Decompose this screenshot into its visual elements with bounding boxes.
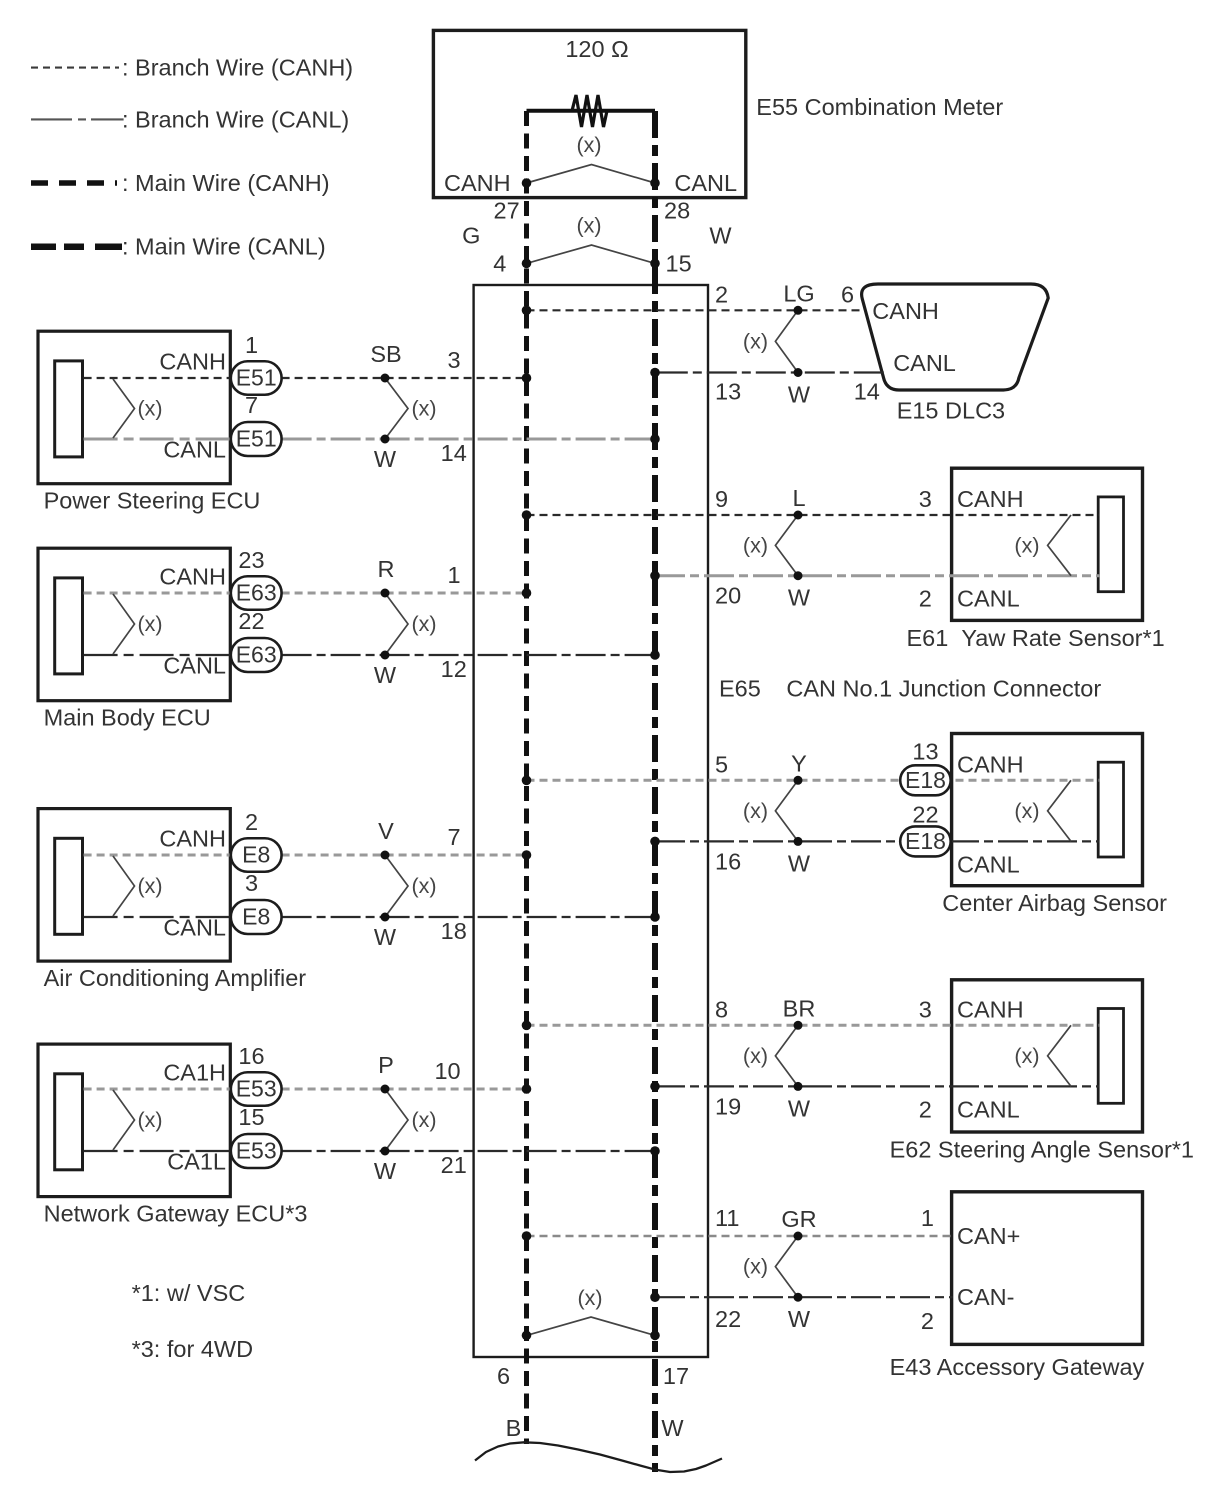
main wire CANH vertical: [524, 111, 529, 1444]
svg-text:CANL: CANL: [957, 586, 1020, 612]
main wire CANL vertical: [652, 111, 658, 1472]
svg-text:CANL: CANL: [957, 1096, 1020, 1122]
node W on Center Airbag Sensor CANL branch: [794, 837, 803, 846]
E61&#160;&#160;Yaw Rate Sensor*1 branch twisted-pair chevron: [775, 515, 798, 576]
svg-text:E53: E53: [236, 1138, 277, 1164]
svg-text:13: 13: [715, 379, 741, 405]
svg-text:W: W: [788, 585, 811, 611]
junction node CANL DLC3: [650, 368, 660, 378]
node BR on CANH branch: [794, 1021, 803, 1030]
Main Body ECU internal twisted-pair chevron: [113, 594, 135, 654]
Center Airbag Sensor connector bar: [1098, 762, 1123, 857]
svg-text:22: 22: [912, 801, 938, 827]
Air Conditioning Amplifier internal CANH wire: [84, 854, 231, 857]
svg-text:E8: E8: [242, 842, 270, 868]
junction node CANH Power Steering ECU: [522, 373, 532, 383]
svg-text:2: 2: [715, 281, 728, 307]
Air Conditioning Amplifier connector bar: [55, 838, 83, 934]
junction node CANH E61&#160;&#160;Yaw Rate Sensor*1: [522, 510, 532, 520]
Network Gateway ECU*3 internal twisted-pair chevron: [113, 1090, 135, 1150]
svg-text:E55 Combination Meter: E55 Combination Meter: [756, 94, 1003, 120]
node Y on CANH branch: [794, 776, 803, 785]
svg-text:: Branch Wire (CANH): : Branch Wire (CANH): [122, 55, 353, 81]
svg-text:CANL: CANL: [163, 437, 226, 463]
svg-text:W: W: [374, 1158, 397, 1184]
svg-text:E63: E63: [236, 580, 277, 606]
svg-text:CANH: CANH: [159, 564, 226, 590]
branch wire CANL Power Steering ECU to junction: [282, 438, 655, 441]
E43 branch twisted-pair chevron: [775, 1236, 798, 1297]
Air Conditioning Amplifier internal CANL wire: [84, 916, 231, 918]
svg-text:23: 23: [238, 547, 264, 573]
svg-text:3: 3: [919, 996, 932, 1022]
legend main wire CANL sample: [31, 243, 122, 250]
ECU box Air Conditioning Amplifier: [38, 809, 230, 962]
svg-text:(x): (x): [1014, 1044, 1039, 1068]
svg-text:V: V: [378, 818, 394, 844]
svg-text:CANH: CANH: [957, 486, 1024, 512]
svg-text:22: 22: [715, 1306, 741, 1332]
Center Airbag Sensor internal twisted-pair chevron: [1048, 780, 1071, 841]
Power Steering ECU internal CANH wire: [84, 377, 231, 379]
E62 Steering Angle Sensor*1 connector bar: [1098, 1009, 1123, 1104]
branch wire CANL junction to DLC3: [655, 371, 884, 373]
Main Body ECU branch twisted-pair chevron: [385, 593, 408, 655]
svg-text:B: B: [506, 1415, 522, 1441]
svg-text:LG: LG: [783, 280, 814, 306]
svg-text:6: 6: [497, 1363, 510, 1389]
svg-text:W: W: [788, 1095, 811, 1121]
svg-text:(x): (x): [577, 1286, 602, 1310]
svg-text:W: W: [374, 446, 397, 472]
svg-text:16: 16: [238, 1043, 264, 1069]
svg-text:E18: E18: [905, 828, 946, 854]
svg-text:Air Conditioning Amplifier: Air Conditioning Amplifier: [44, 965, 307, 991]
svg-text:(x): (x): [743, 329, 768, 353]
node W on E43 CANL branch: [794, 1293, 803, 1302]
Main Body ECU connector bar: [55, 578, 83, 674]
meter harness twisted-pair chevron: [527, 245, 656, 263]
node W on CANL branch: [381, 435, 390, 444]
branch wire CANL Main Body ECU to junction: [282, 654, 655, 656]
svg-text:CAN+: CAN+: [957, 1223, 1020, 1249]
svg-text:CANH: CANH: [957, 751, 1024, 777]
node CANH in E55: [522, 178, 532, 188]
connector oval E51 pin 7: [231, 422, 282, 456]
svg-text:3: 3: [245, 870, 258, 896]
junction node CANL Main Body ECU: [650, 650, 660, 660]
junction node CANH Main Body ECU: [522, 588, 532, 598]
Main Body ECU internal CANH wire: [84, 592, 231, 595]
svg-text:E51: E51: [236, 365, 277, 391]
ECU box Power Steering ECU: [38, 331, 230, 484]
svg-text:18: 18: [441, 918, 467, 944]
svg-text:(x): (x): [743, 799, 768, 823]
svg-text:12: 12: [441, 656, 467, 682]
svg-text:E43 Accessory Gateway: E43 Accessory Gateway: [890, 1354, 1145, 1380]
svg-text:: Main Wire (CANH): : Main Wire (CANH): [122, 170, 330, 196]
svg-text:(x): (x): [743, 1044, 768, 1068]
svg-text:28: 28: [664, 198, 690, 224]
node W on CANL branch: [381, 1147, 390, 1156]
svg-text:3: 3: [919, 486, 932, 512]
svg-text:(x): (x): [743, 1255, 768, 1279]
junction node CANL Power Steering ECU: [650, 434, 660, 444]
svg-text:(x): (x): [1014, 799, 1039, 823]
junction connector box E65: [474, 285, 708, 1357]
Network Gateway ECU*3 internal CANH wire: [84, 1088, 231, 1091]
svg-text:E53: E53: [236, 1076, 277, 1102]
svg-text:(x): (x): [412, 612, 437, 636]
svg-text:11: 11: [715, 1205, 739, 1231]
junction node CANH E43: [522, 1231, 532, 1241]
svg-text:15: 15: [238, 1104, 264, 1130]
svg-text:15: 15: [666, 251, 692, 277]
connector oval E51 pin 1: [231, 361, 282, 395]
svg-text:7: 7: [448, 824, 461, 850]
accessory gateway box E43: [952, 1192, 1143, 1345]
node 4 on CANH: [522, 259, 532, 269]
svg-text:W: W: [709, 223, 732, 249]
branch wire CANH Network Gateway ECU*3 to junction: [282, 1088, 527, 1091]
svg-text:(x): (x): [412, 874, 437, 898]
branch wire CANL junction to E61&#160;&#160;Yaw Rate Sensor*1: [655, 574, 1099, 577]
node W on E62 Steering Angle Sensor*1 CANL branch: [794, 1082, 803, 1091]
node V on CANH branch: [381, 851, 390, 860]
svg-text:(x): (x): [576, 214, 601, 238]
svg-text:7: 7: [245, 392, 258, 418]
node L on CANH branch: [794, 511, 803, 520]
junction node CANH DLC3: [522, 306, 532, 316]
svg-text:20: 20: [715, 583, 741, 609]
connector oval E53 pin 16: [231, 1072, 282, 1106]
svg-text:1: 1: [448, 562, 461, 588]
svg-text:13: 13: [912, 738, 938, 764]
svg-text:3: 3: [448, 347, 461, 373]
svg-text:*1: w/ VSC: *1: w/ VSC: [132, 1280, 246, 1306]
svg-text:CANH: CANH: [159, 826, 226, 852]
svg-text:22: 22: [238, 608, 264, 634]
svg-text:E61 Yaw Rate Sensor*1: E61 Yaw Rate Sensor*1: [907, 625, 1165, 651]
svg-text:: Branch Wire (CANL): : Branch Wire (CANL): [122, 106, 349, 132]
junction node CANH E62 Steering Angle Sensor*1: [522, 1021, 532, 1031]
svg-text:BR: BR: [783, 995, 816, 1021]
sensor box E62 Steering Angle Sensor*1: [952, 980, 1143, 1132]
Power Steering ECU internal twisted-pair chevron: [113, 379, 135, 438]
branch wire CANL junction to E62 Steering Angle Sensor*1: [655, 1085, 1099, 1087]
svg-text:14: 14: [441, 440, 467, 466]
node LG on CANH branch: [794, 306, 803, 315]
junction node CANL Center Airbag Sensor: [650, 837, 660, 847]
node R on CANH branch: [381, 589, 390, 598]
legend main wire CANH sample: [31, 180, 117, 186]
branch wire CANH junction to DLC3: [527, 309, 865, 311]
resistor 120ohm lead line: [527, 109, 656, 113]
harness continuation wave: [475, 1442, 722, 1472]
connector oval E18 pin 13: [900, 765, 951, 795]
svg-text:R: R: [378, 556, 395, 582]
svg-text:5: 5: [715, 751, 728, 777]
branch wire CANH Main Body ECU to junction: [282, 592, 527, 595]
node 15 on CANL: [650, 259, 660, 269]
svg-text:(x): (x): [138, 1108, 163, 1132]
Air Conditioning Amplifier branch twisted-pair chevron: [385, 855, 408, 917]
sensor box E61&#160;&#160;Yaw Rate Sensor*1: [952, 468, 1143, 620]
Network Gateway ECU*3 connector bar: [55, 1074, 83, 1170]
E55 twisted-pair chevron: [527, 165, 656, 184]
svg-text:CANH: CANH: [957, 996, 1024, 1022]
node W on CANL main: [650, 1331, 660, 1341]
svg-text:E15 DLC3: E15 DLC3: [897, 398, 1005, 424]
svg-text:: Main Wire (CANL): : Main Wire (CANL): [122, 234, 326, 260]
resistor 120ohm zigzag: [572, 95, 607, 127]
connector oval E18 pin 22: [900, 826, 951, 856]
connector oval E63 pin 23: [231, 576, 282, 610]
junction node CANL E43: [650, 1292, 660, 1302]
svg-text:(x): (x): [138, 874, 163, 898]
E61&#160;&#160;Yaw Rate Sensor*1 connector bar: [1098, 497, 1123, 592]
svg-text:CANH: CANH: [159, 349, 226, 375]
branch wire CANH junction to E62 Steering Angle Sensor*1: [527, 1024, 1100, 1027]
branch wire CANH Air Conditioning Amplifier to junction: [282, 854, 527, 857]
svg-text:E51: E51: [236, 426, 277, 452]
junction node CANL Air Conditioning Amplifier: [650, 912, 660, 922]
svg-text:9: 9: [715, 486, 728, 512]
DLC3 connector shape E15: [862, 284, 1049, 390]
svg-text:E8: E8: [242, 904, 270, 930]
node GR on CANH branch: [794, 1232, 803, 1241]
Network Gateway ECU*3 branch twisted-pair chevron: [385, 1089, 408, 1151]
svg-text:Network Gateway ECU*3: Network Gateway ECU*3: [44, 1201, 308, 1227]
ECU box Main Body ECU: [38, 548, 230, 701]
junction node CANL E62 Steering Angle Sensor*1: [650, 1082, 660, 1092]
svg-text:CANL: CANL: [163, 653, 226, 679]
svg-text:10: 10: [434, 1058, 460, 1084]
Power Steering ECU branch twisted-pair chevron: [385, 378, 408, 439]
Power Steering ECU connector bar: [55, 361, 83, 457]
svg-text:W: W: [374, 924, 397, 950]
node P on CANH branch: [381, 1085, 390, 1094]
junction internal twisted-pair chevron: [527, 1317, 656, 1335]
svg-text:(x): (x): [576, 133, 601, 157]
ECU box Network Gateway ECU*3: [38, 1044, 230, 1197]
svg-text:CAN-: CAN-: [957, 1284, 1014, 1310]
svg-text:8: 8: [715, 996, 728, 1022]
svg-text:(x): (x): [412, 397, 437, 421]
svg-text:P: P: [378, 1052, 394, 1078]
branch wire CANH junction to Center Airbag Sensor: [527, 779, 1100, 782]
svg-text:CANL: CANL: [674, 170, 737, 196]
node B on CANH main: [522, 1331, 532, 1341]
Main Body ECU internal CANL wire: [84, 654, 231, 656]
branch wire CANL Network Gateway ECU*3 to junction: [282, 1150, 655, 1152]
Air Conditioning Amplifier internal twisted-pair chevron: [113, 856, 135, 916]
combination meter box E55: [433, 30, 745, 197]
svg-text:21: 21: [441, 1152, 467, 1178]
branch wire CANL junction to Center Airbag Sensor: [655, 840, 1099, 842]
svg-text:W: W: [374, 662, 397, 688]
svg-text:1: 1: [245, 332, 258, 358]
svg-text:2: 2: [921, 1308, 934, 1334]
svg-text:2: 2: [919, 1096, 932, 1122]
svg-text:L: L: [792, 485, 805, 511]
svg-text:6: 6: [841, 281, 854, 307]
branch wire CANH junction to E61&#160;&#160;Yaw Rate Sensor*1: [527, 514, 1100, 516]
svg-text:Y: Y: [791, 750, 807, 776]
svg-text:4: 4: [493, 251, 506, 277]
svg-text:120 Ω: 120 Ω: [565, 36, 628, 62]
svg-text:CA1L: CA1L: [167, 1149, 226, 1175]
svg-text:W: W: [788, 1306, 811, 1332]
branch wire CANH Power Steering ECU to junction: [282, 377, 527, 379]
svg-text:W: W: [788, 382, 811, 408]
junction node CANH Air Conditioning Amplifier: [522, 850, 532, 860]
svg-text:CA1H: CA1H: [163, 1060, 226, 1086]
E62 Steering Angle Sensor*1 internal twisted-pair chevron: [1048, 1025, 1071, 1086]
svg-text:27: 27: [494, 198, 520, 224]
connector oval E63 pin 22: [231, 638, 282, 672]
svg-text:(x): (x): [138, 397, 163, 421]
Center Airbag Sensor branch twisted-pair chevron: [775, 780, 798, 841]
svg-text:(x): (x): [412, 1108, 437, 1132]
junction node CANL E61&#160;&#160;Yaw Rate Sensor*1: [650, 571, 660, 581]
svg-text:E65: E65: [719, 676, 761, 702]
svg-text:CANL: CANL: [893, 350, 956, 376]
svg-text:Power Steering ECU: Power Steering ECU: [44, 488, 261, 514]
svg-text:CANL: CANL: [163, 915, 226, 941]
node W on CANL branch: [381, 913, 390, 922]
svg-text:CANH: CANH: [444, 170, 511, 196]
svg-text:2: 2: [245, 809, 258, 835]
E61&#160;&#160;Yaw Rate Sensor*1 internal twisted-pair chevron: [1048, 515, 1071, 576]
Power Steering ECU internal CANL wire: [84, 438, 231, 441]
svg-text:E63: E63: [236, 642, 277, 668]
node CANL in E55: [650, 178, 660, 188]
svg-text:(x): (x): [1014, 533, 1039, 557]
node W on CANL branch: [381, 651, 390, 660]
svg-text:*3: for 4WD: *3: for 4WD: [132, 1336, 253, 1362]
svg-text:CANH: CANH: [872, 298, 939, 324]
connector oval E8 pin 3: [231, 900, 282, 934]
connector oval E53 pin 15: [231, 1134, 282, 1168]
Network Gateway ECU*3 internal CANL wire: [84, 1150, 231, 1152]
E62 Steering Angle Sensor*1 branch twisted-pair chevron: [775, 1025, 798, 1086]
svg-text:G: G: [462, 223, 480, 249]
svg-text:Center Airbag Sensor: Center Airbag Sensor: [942, 890, 1167, 916]
node W on E61&#160;&#160;Yaw Rate Sensor*1 CANL branch: [794, 571, 803, 580]
node SB on CANH branch: [381, 374, 390, 383]
svg-text:2: 2: [919, 586, 932, 612]
junction node CANH Network Gateway ECU*3: [522, 1084, 532, 1094]
branch wire CANH junction to E43: [527, 1235, 953, 1238]
svg-text:1: 1: [921, 1205, 934, 1231]
svg-text:(x): (x): [138, 612, 163, 636]
svg-text:(x): (x): [743, 533, 768, 557]
node W on DLC3 CANL branch: [794, 368, 803, 377]
svg-text:E62 Steering Angle Sensor*1: E62 Steering Angle Sensor*1: [890, 1137, 1194, 1163]
junction node CANL Network Gateway ECU*3: [650, 1146, 660, 1156]
svg-text:17: 17: [663, 1363, 689, 1389]
legend branch wire CANL sample: [31, 118, 124, 120]
svg-text:CAN No.1 Junction Connector: CAN No.1 Junction Connector: [786, 676, 1101, 702]
svg-text:14: 14: [854, 379, 880, 405]
svg-text:Main Body ECU: Main Body ECU: [44, 705, 211, 731]
svg-text:19: 19: [715, 1093, 741, 1119]
connector oval E8 pin 2: [231, 838, 282, 872]
svg-text:E18: E18: [905, 767, 946, 793]
svg-text:16: 16: [715, 848, 741, 874]
branch wire CANL Air Conditioning Amplifier to junction: [282, 916, 655, 918]
svg-text:SB: SB: [370, 341, 401, 367]
branch wire CANL junction to E43: [655, 1296, 953, 1298]
svg-text:W: W: [661, 1415, 684, 1441]
svg-text:W: W: [788, 850, 811, 876]
legend branch wire CANH sample: [31, 67, 119, 69]
svg-text:CANL: CANL: [957, 851, 1020, 877]
sensor box Center Airbag Sensor: [952, 734, 1143, 886]
DLC3 branch twisted-pair chevron: [775, 310, 798, 372]
junction node CANH Center Airbag Sensor: [522, 776, 532, 786]
svg-text:GR: GR: [781, 1206, 816, 1232]
